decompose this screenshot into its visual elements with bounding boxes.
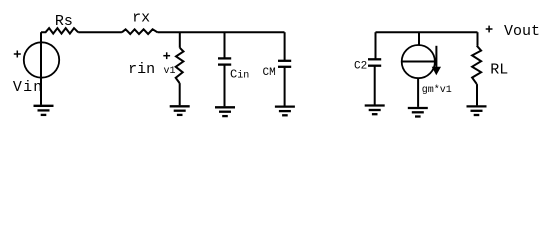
ground [215,107,235,116]
capacitor Cin [218,58,231,64]
dependent current source gm*v1 [402,45,435,78]
plus sign (Vin polarity) [14,51,21,58]
wire [224,65,226,107]
wire [284,67,286,106]
svg-text:rin: rin [128,61,155,78]
svg-text:v1: v1 [164,66,176,77]
svg-text:Vin: Vin [13,79,44,96]
svg-text:Vout: Vout [504,23,540,40]
resistor RL [472,46,481,84]
capacitor CM [278,61,291,67]
ground [170,106,190,115]
resistor Rs [41,28,78,33]
capacitor C2 [368,59,381,65]
ground [408,108,428,117]
resistor rx [122,29,158,34]
wire (corner down to CM) [284,32,286,61]
wire [40,32,42,42]
wire (Cin branch drop) [224,32,226,58]
wire (corner down to C2) [375,32,377,59]
svg-text:RL: RL [490,61,508,78]
wire (top rail to CM) [158,31,285,33]
wire [179,83,181,105]
ground [34,106,54,115]
wire [476,84,478,105]
svg-text:gm*v1: gm*v1 [422,84,452,96]
plus sign (v1 polarity) [163,52,170,59]
ground [365,106,385,115]
wire [40,78,42,105]
wire (right circuit top rail) [376,31,478,33]
ground [275,107,295,116]
wire (drop to current source) [418,32,420,45]
svg-text:Rs: Rs [55,13,73,30]
wire (rin branch drop) [179,32,181,48]
plus sign (Vout polarity) [486,26,493,33]
ground [467,106,487,115]
wire [417,78,419,107]
wire [374,66,376,105]
wire (corner down to RL) [477,32,479,46]
svg-text:rx: rx [132,10,150,27]
svg-text:C2: C2 [354,60,367,72]
current direction arrow [432,46,441,75]
svg-text:Cin: Cin [230,67,249,81]
wire [78,31,122,33]
resistor rin [176,48,184,83]
voltage source Vin [24,42,59,77]
svg-text:CM: CM [263,67,276,79]
